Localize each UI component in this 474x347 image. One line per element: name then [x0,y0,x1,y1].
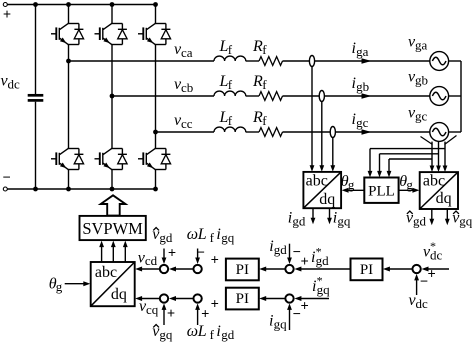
wire omega-term into S4 [195,303,200,325]
wire voltage tap vertical 2 [436,142,441,172]
wire sensor c to abc-dq [330,138,335,172]
sign plus S4 right [211,297,219,313]
sign plus S1 [168,246,176,262]
block abc-dq voltage transform U4 [420,172,458,209]
svg-text:gd: gd [274,242,288,257]
wire S5 to PI1 [259,267,285,272]
svg-text:f: f [262,42,267,57]
wire S6 to PI3 [383,267,412,272]
wire DC bus left lower [35,102,37,189]
svg-text:f: f [228,42,233,57]
current sensor phase a [309,56,314,67]
label theta_g left [341,173,355,192]
block PI2 [226,288,259,310]
wire leg3 collector upper [155,5,157,24]
inductor L_f phase b [214,91,246,96]
wire tap to PLL vertical 2 [377,154,382,178]
transistor Q5 with diode [138,24,171,45]
wire tap to PLL horizontal 2 [380,153,439,155]
node DC+ terminal [3,3,11,24]
junction top rail 4 [153,2,158,7]
svg-text:L: L [197,323,207,340]
wire leg3 emitter lower [155,170,157,190]
wire PI3 to S5 [294,267,350,272]
sign minus S5 [293,245,301,261]
svg-text:i: i [216,323,220,340]
junction top rail 1 [33,2,38,7]
wire leg1 emitter lower [68,170,70,190]
svg-text:PI: PI [360,262,373,278]
wire leg2 emitter lower [111,170,113,190]
label theta_g right [399,173,413,192]
label R_f phase c [252,109,267,128]
wire leg1 middle [68,45,70,149]
wire tap to PLL horizontal 3 [389,158,432,160]
wire i_gq output [327,208,332,224]
svg-text:cc: cc [181,116,193,131]
label i*_gq [312,274,330,297]
wire tap flare right [445,136,457,145]
wire S7 to PI2 [259,296,285,301]
inductor L_f phase a [214,56,246,61]
wire leg3 middle [155,45,157,149]
svg-text:ga: ga [415,37,428,52]
svg-text:+: + [211,297,219,313]
sign plus S7 [300,299,308,315]
label vhat_gq output [452,210,473,229]
svg-text:+: + [167,306,175,322]
sign plus S5 right [300,254,308,270]
wire leg1 collector upper [68,5,70,24]
transistor Q2 with diode [138,149,171,170]
svg-text:gd: gd [292,213,306,228]
label i_gq at S7 [269,313,287,332]
svg-text:−: − [197,245,205,261]
label i_gq output [333,210,351,229]
wire theta_g to dq-abc [65,281,91,286]
svg-text:f: f [210,327,215,342]
svg-text:gq: gq [337,213,351,228]
label v_dc measured [409,292,429,311]
wire source a to bus [449,60,461,62]
wire dq-abc to SVPWM 2 [111,241,116,262]
block abc-dq current transform U2 [303,172,341,208]
wire voltage tap vertical 1 [430,142,435,172]
wire leg2 collector upper [111,5,113,24]
label i_gc [352,111,369,130]
wire vhat_gq output [445,209,450,225]
label v_gc [408,105,428,124]
wire v_cq into dq-abc [135,296,159,301]
svg-text:+: + [168,246,176,262]
label omega L_f i_gd [187,323,235,342]
svg-text:−: − [2,170,10,186]
svg-text:cq: cq [146,302,159,317]
wire tap to PLL vertical 3 [387,159,392,177]
current sensor phase b [319,91,324,102]
sign plus S3 [167,306,175,322]
current sensor phase c [330,127,335,138]
label v_gb [408,69,428,88]
resistor R_f phase a [259,57,282,66]
wire source b to bus [449,95,461,97]
svg-text:gq: gq [221,230,235,245]
summer S5 [285,265,293,273]
svg-text:*: * [316,245,322,259]
svg-text:g: g [348,177,355,192]
svg-text:f: f [210,230,215,245]
svg-text:gq: gq [159,327,173,342]
arrow SVPWM to inverter [101,195,126,215]
wire phase c L to R [246,131,259,133]
svg-text:+: + [300,254,308,270]
wire phase b L to R [246,95,259,97]
svg-text:abc: abc [423,173,445,190]
resistor R_f phase c [259,128,282,137]
svg-text:f: f [228,113,233,128]
summer S4 [193,294,201,302]
wire i_gq into S7 [287,303,292,330]
svg-text:gq: gq [274,316,288,331]
wire DC bus left upper [35,5,37,95]
label v_cb [174,76,193,95]
wire phase a R to source [283,60,430,62]
svg-text:SVPWM: SVPWM [82,219,143,238]
wire grid neutral bus [460,61,462,132]
label v_cd [138,249,158,268]
label omega L_f i_gq [187,226,235,245]
svg-text:−: − [293,307,301,323]
svg-text:gc: gc [415,108,428,123]
label v_ga [408,34,428,53]
summer S6 [412,265,420,273]
transistor Q3 with diode [95,24,128,45]
wire S4 to S3 [169,296,193,301]
svg-text:*: * [317,274,323,288]
label R_f phase b [252,73,267,92]
junction phase b tap [110,94,115,99]
block PLL U3 [364,178,398,203]
ac source v_ga [430,52,449,71]
label L_f phase c [219,109,233,128]
wire tap flare left [421,137,433,145]
wire phase c R to source [283,131,430,133]
current arrow i_gb [362,93,372,99]
label i_ga [352,40,369,59]
summer S2 [193,265,201,273]
junction phase a tap [66,59,71,64]
transistor Q6 with diode [95,149,128,170]
svg-text:f: f [262,77,267,92]
svg-text:abc: abc [95,264,117,281]
wire vhat_gd into S1 [162,249,167,265]
svg-text:gb: gb [356,79,369,94]
label i_gd at S5 [269,238,287,257]
sign plus S4 below [201,307,209,323]
svg-text:+: + [300,299,308,315]
svg-text:gd: gd [413,213,427,228]
wire v*_dc into S6 [422,267,450,272]
block PI3 [351,259,383,281]
block SVPWM U5 [80,216,146,240]
svg-text:+: + [3,7,11,23]
svg-text:L: L [197,226,207,243]
wire vhat_gd output [429,209,434,225]
label vhat_gd output [406,210,427,229]
wire tap to PLL vertical 1 [368,149,373,178]
svg-text:+: + [211,253,219,269]
current arrow i_gc [362,129,372,135]
resistor R_f phase b [259,92,282,101]
svg-text:ω: ω [187,226,198,243]
wire theta_g to right abc-dq [399,188,420,193]
wire v_cd into dq-abc [135,267,159,272]
wire S2 to S1 [169,267,193,272]
wire source c to bus [449,131,461,133]
label L_f phase b [219,73,233,92]
wire omega-term into S2 [195,249,200,265]
svg-text:+: + [201,307,209,323]
svg-text:g: g [56,279,63,294]
current arrow i_ga [362,58,372,64]
sign minus S6 [420,274,428,290]
summer S7 [285,294,293,302]
wire voltage tap vertical 3 [443,142,448,172]
svg-text:ω: ω [187,323,198,340]
svg-text:PLL: PLL [368,184,395,200]
wire dq-abc to SVPWM 3 [123,241,128,262]
block PI1 [226,259,259,281]
svg-text:*: * [430,239,436,253]
summer S1 [160,265,168,273]
label vhat_gd at S1 [152,226,173,245]
svg-text:dc: dc [8,76,21,91]
wire leg2 middle [111,45,113,149]
wire dq-abc to SVPWM 1 [99,241,104,262]
svg-text:ca: ca [181,45,193,60]
label i_gb [352,75,370,94]
wire i_gd into S5 [287,244,292,264]
svg-text:ga: ga [356,44,369,59]
svg-text:−: − [420,274,428,290]
svg-text:gq: gq [459,213,473,228]
wire vhat_gq into S3 [162,303,167,325]
svg-text:cd: cd [145,253,158,268]
svg-text:gb: gb [415,72,428,87]
junction top rail 2 [66,2,71,7]
wire phase c inverter to filter [156,131,215,133]
summer S3 [160,294,168,302]
ac source v_gc [430,123,449,142]
wire tap to PLL horizontal 1 [370,148,445,150]
svg-text:cb: cb [181,80,193,95]
wire phase b inverter to filter [112,95,214,97]
label L_f phase a [219,38,233,57]
junction phase c tap [153,130,158,135]
junction bottom rail 1 [33,187,38,192]
svg-text:PI: PI [236,291,249,307]
svg-text:gc: gc [356,115,369,130]
wire theta_g to left abc-dq [342,188,365,193]
wire i_gd output [311,208,316,224]
sign plus S2 right [211,253,219,269]
wire phase b R to source [283,95,430,97]
label R_f phase a [252,38,267,57]
ac source v_gb [430,87,449,106]
wire sensor b to abc-dq [319,102,324,172]
inductor L_f phase c [214,127,246,132]
junction bottom rail 3 [110,187,115,192]
wire top DC rail [7,4,155,6]
block dq-abc inverse transform U6 [91,262,135,306]
capacitor C dc-link [28,95,44,100]
label vhat_gq at S3 [152,323,173,342]
sign minus S2 [197,245,205,261]
sign minus S7 [293,307,301,323]
label i*_gd [311,245,329,268]
node DC- terminal [2,170,10,191]
svg-text:dq: dq [319,191,335,208]
transistor Q4 with diode [51,149,84,170]
label i_gd output [288,210,306,229]
wire phase a L to R [246,60,259,62]
svg-text:g: g [406,177,413,192]
svg-text:f: f [228,77,233,92]
label v*_dc [423,239,443,262]
transistor Q1 with diode [51,24,84,45]
wire sensor a to abc-dq [310,67,315,172]
svg-text:PI: PI [236,262,249,278]
wire phase a inverter to filter [69,60,215,62]
label v_dc [1,73,21,92]
label v_cc [174,112,193,131]
svg-text:dc: dc [416,296,429,311]
label theta_g dq-abc [49,275,63,294]
junction bottom rail 4 [153,187,158,192]
svg-text:gd: gd [159,230,173,245]
svg-text:abc: abc [306,173,328,190]
svg-text:gd: gd [221,327,235,342]
svg-text:+: + [427,267,435,283]
svg-text:f: f [262,113,267,128]
junction top rail 3 [110,2,115,7]
label v_ca [174,41,193,60]
sign plus S6 [427,267,435,283]
wire v_dc into S6 [414,274,419,295]
svg-text:dq: dq [111,286,127,303]
wire i*_gq into S7 [294,296,329,301]
svg-text:dq: dq [436,190,452,207]
wire bottom DC rail [7,188,155,190]
svg-text:i: i [216,226,220,243]
junction bottom rail 2 [66,187,71,192]
label v_cq [139,298,159,317]
